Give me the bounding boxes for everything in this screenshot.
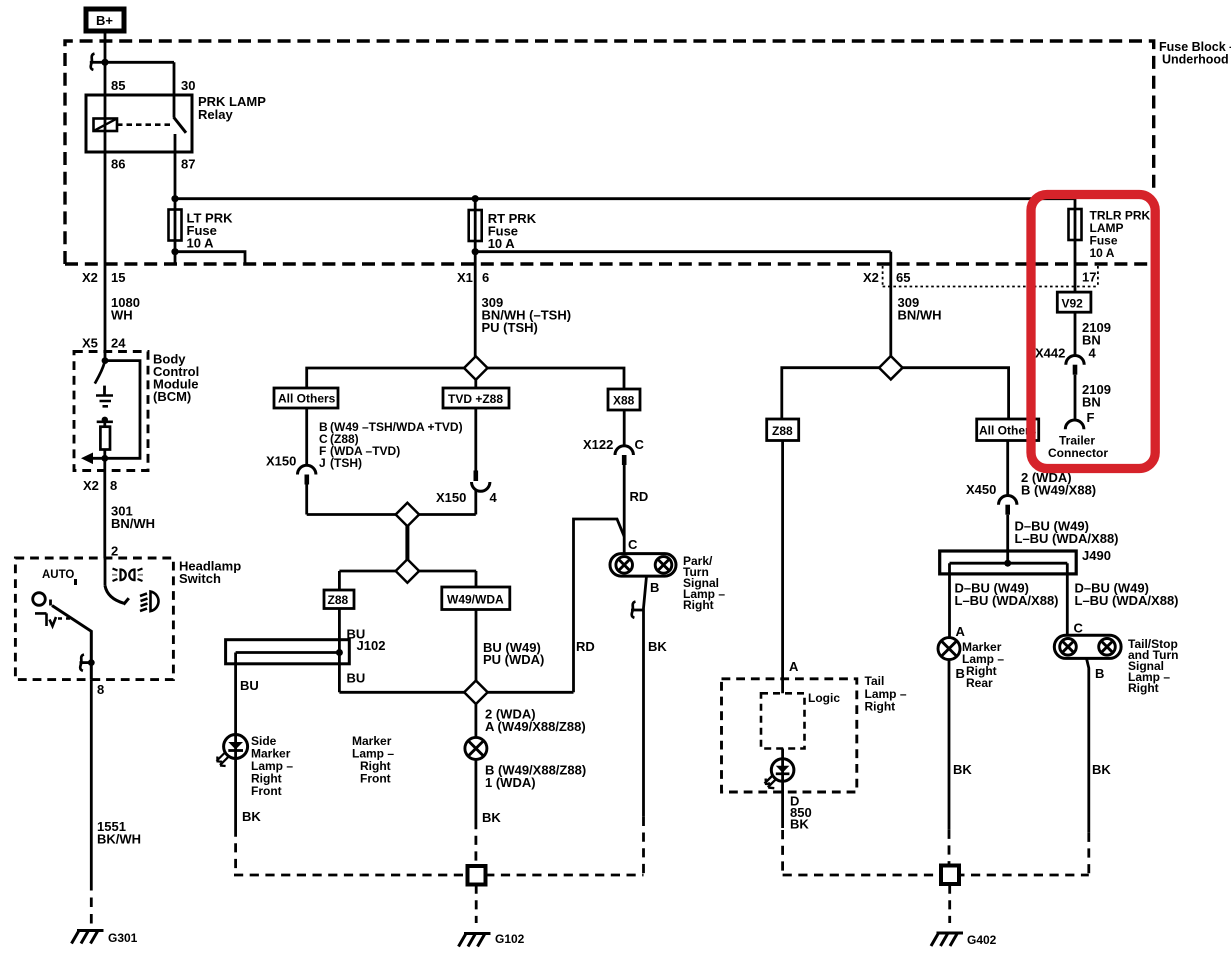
svg-text:TVD +Z88: TVD +Z88	[448, 392, 503, 406]
svg-text:BU: BU	[240, 678, 259, 693]
svg-text:87: 87	[181, 157, 195, 172]
svg-text:WH: WH	[111, 308, 133, 323]
svg-text:2: 2	[111, 544, 118, 559]
svg-text:X88: X88	[613, 394, 635, 408]
svg-text:X442: X442	[1035, 346, 1065, 361]
svg-text:4: 4	[490, 490, 498, 505]
svg-text:24: 24	[111, 336, 126, 351]
svg-text:15: 15	[111, 270, 125, 285]
svg-text:Front: Front	[360, 772, 391, 786]
svg-text:V92: V92	[1062, 297, 1084, 311]
svg-text:(BCM): (BCM)	[153, 389, 191, 404]
svg-text:X122: X122	[583, 437, 613, 452]
svg-text:Underhood: Underhood	[1162, 53, 1229, 67]
svg-text:PU (TSH): PU (TSH)	[482, 320, 538, 335]
svg-text:Tail: Tail	[865, 674, 885, 688]
svg-text:Logic: Logic	[808, 691, 840, 705]
svg-text:BK: BK	[1092, 762, 1111, 777]
svg-text:PU (WDA): PU (WDA)	[483, 652, 544, 667]
svg-text:G402: G402	[967, 933, 997, 947]
svg-text:10 A: 10 A	[488, 236, 516, 251]
svg-text:All Others: All Others	[278, 392, 336, 406]
svg-text:86: 86	[111, 157, 125, 172]
svg-text:Right: Right	[1128, 681, 1159, 695]
svg-text:X2: X2	[83, 478, 99, 493]
svg-text:B (W49/X88): B (W49/X88)	[1021, 483, 1096, 498]
svg-text:X150: X150	[266, 454, 296, 469]
svg-text:J490: J490	[1082, 548, 1111, 563]
svg-text:BK: BK	[648, 639, 667, 654]
svg-text:10 A: 10 A	[1090, 246, 1115, 260]
svg-text:Switch: Switch	[179, 571, 221, 586]
svg-text:X2: X2	[863, 270, 879, 285]
svg-text:Front: Front	[251, 784, 282, 798]
svg-text:J102: J102	[357, 638, 386, 653]
svg-text:30: 30	[181, 78, 195, 93]
svg-text:Right: Right	[865, 700, 896, 714]
svg-text:B: B	[650, 580, 659, 595]
svg-text:BK/WH: BK/WH	[97, 832, 141, 847]
svg-text:1 (WDA): 1 (WDA)	[485, 775, 536, 790]
svg-text:G102: G102	[495, 932, 525, 946]
svg-text:G301: G301	[108, 931, 138, 945]
svg-text:65: 65	[896, 270, 910, 285]
svg-text:A: A	[789, 659, 799, 674]
svg-text:BK: BK	[790, 817, 809, 832]
svg-text:A (W49/X88/Z88): A (W49/X88/Z88)	[485, 719, 586, 734]
svg-text:BK: BK	[482, 810, 501, 825]
svg-text:17: 17	[1082, 270, 1096, 285]
svg-text:BN: BN	[1082, 395, 1101, 410]
svg-text:Relay: Relay	[198, 107, 233, 122]
svg-text:Rear: Rear	[966, 676, 993, 690]
svg-text:6: 6	[482, 270, 489, 285]
svg-text:A: A	[956, 624, 966, 639]
svg-text:L–BU (WDA/X88): L–BU (WDA/X88)	[955, 593, 1059, 608]
svg-text:BU: BU	[347, 671, 366, 686]
svg-text:BN/WH: BN/WH	[111, 516, 155, 531]
svg-text:X150: X150	[436, 490, 466, 505]
svg-text:BK: BK	[242, 809, 261, 824]
svg-text:C: C	[628, 537, 638, 552]
svg-text:BK: BK	[953, 762, 972, 777]
svg-text:8: 8	[97, 682, 104, 697]
svg-text:Connector: Connector	[1048, 446, 1108, 460]
svg-text:B: B	[956, 666, 965, 681]
svg-text:C: C	[635, 437, 645, 452]
svg-text:85: 85	[111, 78, 125, 93]
svg-text:F: F	[1087, 410, 1095, 425]
svg-text:Z88: Z88	[328, 593, 349, 607]
svg-text:X2: X2	[82, 270, 98, 285]
svg-text:AUTO: AUTO	[42, 569, 74, 581]
svg-text:RD: RD	[576, 639, 595, 654]
svg-text:RD: RD	[630, 489, 649, 504]
svg-text:L–BU (WDA/X88): L–BU (WDA/X88)	[1015, 531, 1119, 546]
svg-text:B: B	[1095, 666, 1104, 681]
svg-text:8: 8	[110, 478, 117, 493]
svg-text:X450: X450	[966, 482, 996, 497]
svg-text:4: 4	[1089, 346, 1097, 361]
svg-text:X5: X5	[82, 336, 98, 351]
svg-text:Right: Right	[683, 598, 714, 612]
svg-text:B+: B+	[96, 13, 113, 28]
svg-text:L–BU (WDA/X88): L–BU (WDA/X88)	[1075, 593, 1179, 608]
svg-text:(TSH): (TSH)	[330, 456, 362, 470]
svg-text:C: C	[1074, 621, 1084, 636]
svg-text:W49/WDA: W49/WDA	[447, 593, 504, 607]
svg-text:10 A: 10 A	[187, 236, 215, 251]
svg-text:X1: X1	[457, 270, 473, 285]
svg-text:J: J	[319, 456, 326, 470]
svg-text:Z88: Z88	[772, 424, 793, 438]
svg-text:BN/WH: BN/WH	[898, 308, 942, 323]
